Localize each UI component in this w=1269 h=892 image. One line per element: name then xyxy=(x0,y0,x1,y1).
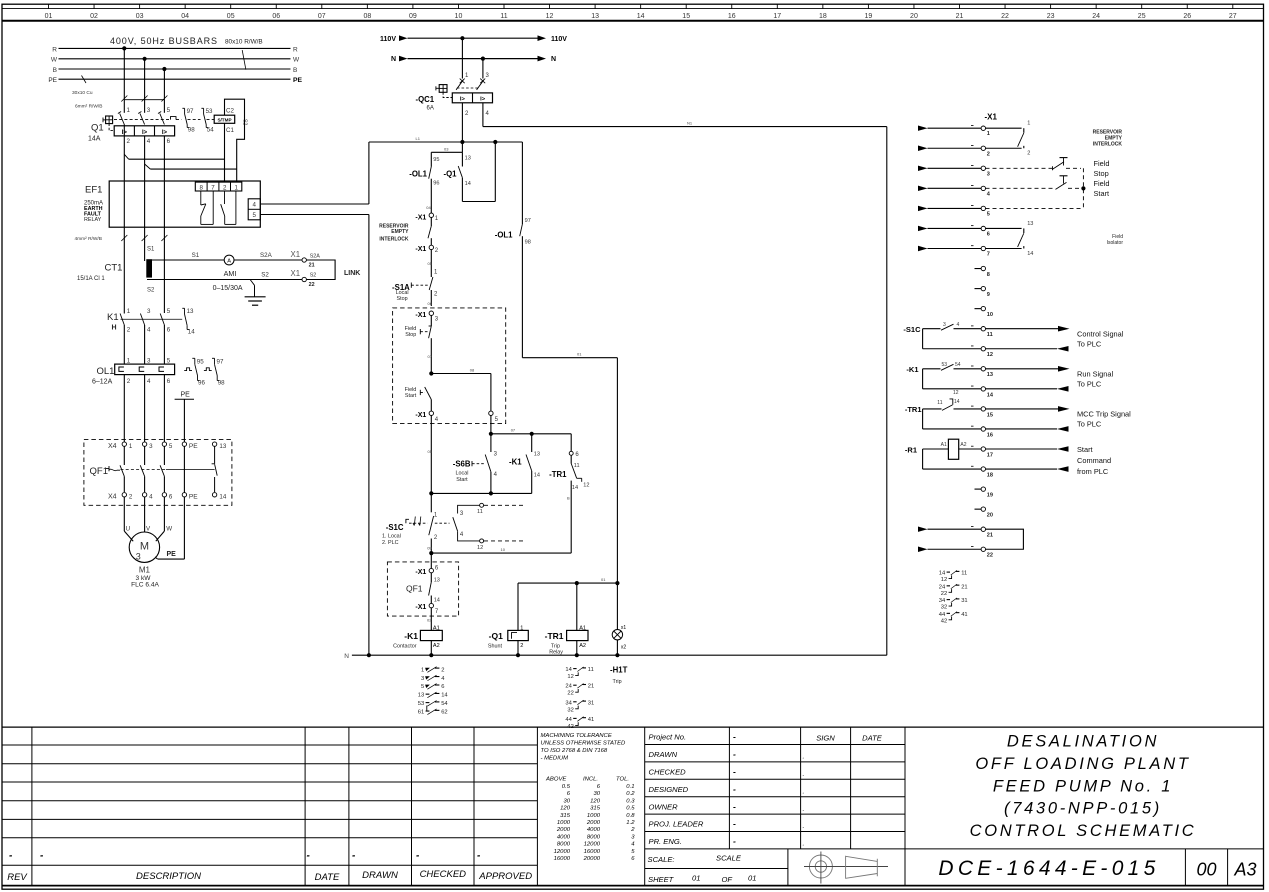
terminal X1:5 xyxy=(981,206,990,217)
svg-text:25: 25 xyxy=(1138,13,1146,20)
terminal -X1:5 xyxy=(489,411,499,423)
wire panel row 2 feed xyxy=(918,145,981,151)
node coil bus b xyxy=(615,581,619,585)
svg-text:30: 30 xyxy=(563,798,570,804)
node N 4 xyxy=(575,653,579,657)
svg-text:12000: 12000 xyxy=(584,842,601,848)
start command from PLC xyxy=(986,445,1112,476)
svg-text:07: 07 xyxy=(428,354,433,359)
selector aux -S1C 3-4 xyxy=(903,322,981,349)
svg-text:8: 8 xyxy=(987,272,990,278)
svg-text:13: 13 xyxy=(591,13,599,20)
svg-text:-X1: -X1 xyxy=(415,215,426,222)
svg-text:11: 11 xyxy=(500,13,507,20)
terminal X1:18 xyxy=(971,466,993,478)
svg-text:.: . xyxy=(803,788,805,795)
wire panel row 3 feed xyxy=(918,166,981,172)
svg-text:8: 8 xyxy=(199,184,203,191)
svg-text:Project No.: Project No. xyxy=(649,733,687,742)
overload relay OL1 xyxy=(92,357,175,385)
svg-text:13: 13 xyxy=(1027,221,1033,227)
svg-text:-X1: -X1 xyxy=(415,604,426,611)
svg-text:-K1: -K1 xyxy=(509,458,522,467)
svg-text:04: 04 xyxy=(181,13,189,20)
wire K1 to OL1 ph2 xyxy=(144,325,146,364)
svg-text:4: 4 xyxy=(252,202,256,209)
svg-text:8000: 8000 xyxy=(557,842,571,848)
svg-text:W: W xyxy=(166,526,172,533)
svg-text:DATE: DATE xyxy=(315,872,340,883)
svg-text:1: 1 xyxy=(421,667,424,673)
svg-text:14: 14 xyxy=(219,494,226,501)
busbar W xyxy=(51,57,300,64)
node L1 b xyxy=(493,140,497,144)
contactor K1 main contacts xyxy=(107,259,182,334)
svg-text:4mm² R/W/B: 4mm² R/W/B xyxy=(75,236,102,242)
svg-text:80x10 R/W/B: 80x10 R/W/B xyxy=(225,39,263,46)
svg-text:14: 14 xyxy=(954,399,960,405)
svg-text:11: 11 xyxy=(588,667,594,673)
svg-text:-OL1: -OL1 xyxy=(409,170,427,179)
svg-text:M1: M1 xyxy=(139,566,151,575)
svg-text:15/1A Cl 1: 15/1A Cl 1 xyxy=(77,276,105,282)
svg-text:A: A xyxy=(227,258,231,264)
svg-text:-S6B: -S6B xyxy=(453,459,471,468)
svg-text:21: 21 xyxy=(987,533,993,539)
svg-text:C2: C2 xyxy=(226,107,234,114)
svg-text:5: 5 xyxy=(167,107,171,114)
revision table xyxy=(2,727,537,886)
svg-text:MCC Trip Signal: MCC Trip Signal xyxy=(1077,410,1131,419)
node N 3 xyxy=(516,653,520,657)
svg-text:05: 05 xyxy=(428,449,433,454)
svg-text:Run Signal: Run Signal xyxy=(1077,370,1114,379)
drawing number row xyxy=(905,849,1264,886)
MCC trip signal to PLC xyxy=(986,406,1132,432)
svg-text:02: 02 xyxy=(427,618,432,623)
svg-text:5: 5 xyxy=(167,308,171,315)
svg-text:MACHINING TOLERANCE: MACHINING TOLERANCE xyxy=(541,733,612,739)
svg-text:3: 3 xyxy=(943,322,946,328)
svg-text:S2A: S2A xyxy=(310,254,321,260)
wire EF1-5 to neutral xyxy=(260,214,369,216)
svg-text:Trip: Trip xyxy=(551,643,560,649)
svg-text:-: - xyxy=(733,801,736,811)
svg-text:-: - xyxy=(733,784,736,794)
reservoir interlock contact xyxy=(379,217,431,245)
svg-text:-Q1: -Q1 xyxy=(489,631,503,641)
svg-text:14: 14 xyxy=(441,693,448,699)
svg-text:PE: PE xyxy=(189,494,198,501)
svg-text:02: 02 xyxy=(90,13,98,20)
node N 5 xyxy=(615,653,619,657)
svg-text:INTERLOCK: INTERLOCK xyxy=(379,237,409,243)
wire 10 return xyxy=(431,547,571,553)
Q1 test button xyxy=(103,116,114,131)
svg-text:-H1T: -H1T xyxy=(610,666,628,675)
bus 110V xyxy=(380,35,567,42)
wire N right drop xyxy=(886,127,888,656)
svg-text:12: 12 xyxy=(987,352,993,358)
svg-text:S2: S2 xyxy=(261,272,269,279)
terminal X1:2 xyxy=(981,146,990,157)
QF1 interlock dashed box xyxy=(387,562,458,616)
svg-text:To PLC: To PLC xyxy=(1077,420,1102,429)
overload aux -OL1 97-98 branch xyxy=(495,142,531,358)
svg-text:6: 6 xyxy=(167,138,171,145)
svg-text:2000: 2000 xyxy=(586,820,601,826)
svg-text:24: 24 xyxy=(565,684,572,690)
svg-text:07: 07 xyxy=(511,428,516,433)
terminal X1:19 xyxy=(975,487,994,499)
svg-text:07: 07 xyxy=(318,13,326,20)
svg-text:Isolator: Isolator xyxy=(1107,240,1124,246)
svg-text:14: 14 xyxy=(465,181,471,187)
svg-text:05: 05 xyxy=(227,13,235,20)
svg-text:X4: X4 xyxy=(108,494,117,501)
svg-text:-: - xyxy=(733,732,736,742)
EF1 terminals 4 5 xyxy=(248,199,260,220)
svg-text:I>: I> xyxy=(162,130,168,136)
svg-text:Local: Local xyxy=(396,290,409,296)
svg-text:11: 11 xyxy=(477,509,483,515)
svg-text:INTERLOCK: INTERLOCK xyxy=(1093,142,1123,148)
svg-text:01: 01 xyxy=(577,352,582,357)
svg-text:I>: I> xyxy=(460,96,466,102)
node coil bus a xyxy=(575,581,579,585)
terminal X1:6 xyxy=(981,226,990,237)
wire panel row 1 feed xyxy=(918,125,981,130)
svg-text:DRAWN: DRAWN xyxy=(649,750,678,759)
svg-text:OL1: OL1 xyxy=(97,366,115,377)
svg-text:from PLC: from PLC xyxy=(1077,467,1109,476)
terminal -X1:2 xyxy=(415,245,438,254)
busbar B xyxy=(53,67,298,74)
wire CT S2 xyxy=(147,269,316,292)
svg-text:10: 10 xyxy=(501,547,506,552)
svg-text:5: 5 xyxy=(169,443,173,450)
terminal X1:4 xyxy=(981,186,991,197)
svg-text:6mm² R/W/B: 6mm² R/W/B xyxy=(75,104,102,110)
svg-text:14: 14 xyxy=(534,473,540,479)
svg-text:A1: A1 xyxy=(941,442,947,448)
overload aux -OL1 95-96 xyxy=(409,152,439,213)
svg-text:PE: PE xyxy=(293,77,303,84)
svg-text:06: 06 xyxy=(428,301,433,306)
svg-text:120: 120 xyxy=(560,806,571,812)
svg-text:DESCRIPTION: DESCRIPTION xyxy=(136,871,201,882)
wire QC1-4 neutral return xyxy=(483,103,887,127)
svg-text:44: 44 xyxy=(939,612,946,618)
svg-text:-X1: -X1 xyxy=(415,246,426,253)
svg-text:13: 13 xyxy=(534,452,540,458)
svg-text:- MEDIUM: - MEDIUM xyxy=(541,756,569,762)
svg-text:LINK: LINK xyxy=(344,270,360,277)
svg-text:SIGN: SIGN xyxy=(816,734,835,743)
svg-text:To PLC: To PLC xyxy=(1077,339,1102,348)
Q1 linkage xyxy=(114,117,214,120)
isolator aux QF1 14-13 xyxy=(406,573,440,604)
svg-text:30x10 Cu: 30x10 Cu xyxy=(72,90,93,96)
wire OL1/Q1 feed xyxy=(431,142,462,152)
svg-text:18: 18 xyxy=(819,13,827,20)
svg-text:I>: I> xyxy=(480,96,486,102)
Q1 shunt-trip module S/TMP xyxy=(214,107,247,133)
terminal X1:21 xyxy=(981,527,993,539)
svg-text:-TR1: -TR1 xyxy=(905,405,922,414)
circuit breaker Q1 xyxy=(88,100,175,145)
svg-text:14A: 14A xyxy=(88,136,101,143)
motor M1 xyxy=(129,532,159,589)
terminal X1:3 xyxy=(981,166,990,177)
wire EF1-4 to control xyxy=(260,203,369,205)
svg-text:17: 17 xyxy=(773,13,781,20)
svg-text:X4: X4 xyxy=(108,443,117,450)
svg-text:11: 11 xyxy=(987,332,993,338)
svg-text:PE: PE xyxy=(181,392,191,399)
svg-text:14: 14 xyxy=(434,598,440,604)
svg-text:Start: Start xyxy=(1077,445,1093,454)
wire panel row 7 feed xyxy=(918,246,981,252)
terminal X1:17 xyxy=(971,446,993,458)
terminal X1:12 xyxy=(971,346,993,358)
wire panel row 6 feed xyxy=(918,226,981,232)
svg-text:PROJ. LEADER: PROJ. LEADER xyxy=(649,820,704,829)
svg-text:44: 44 xyxy=(565,717,572,723)
svg-text:1: 1 xyxy=(234,184,238,191)
svg-text:1: 1 xyxy=(127,308,131,315)
run signal to PLC xyxy=(986,366,1114,392)
svg-text:120: 120 xyxy=(590,798,601,804)
svg-text:04: 04 xyxy=(426,205,431,210)
R1 contact table xyxy=(939,570,968,624)
scale sheet block xyxy=(645,849,788,886)
svg-text:-: - xyxy=(733,749,736,759)
svg-text:30: 30 xyxy=(593,791,600,797)
terminal X1:22 xyxy=(302,277,306,281)
svg-text:INCL.: INCL. xyxy=(583,777,598,783)
svg-text:22: 22 xyxy=(1001,13,1009,20)
svg-text:17: 17 xyxy=(987,452,993,458)
svg-text:RELAY: RELAY xyxy=(84,217,102,223)
svg-text:3: 3 xyxy=(421,676,424,682)
wire L1 left drop xyxy=(368,142,370,204)
svg-text:2: 2 xyxy=(129,494,133,501)
wire phase1 through EF1 xyxy=(123,125,125,260)
wire to X1:5 xyxy=(431,367,491,411)
QF1 terminals X4 top xyxy=(108,442,227,450)
svg-text:-: - xyxy=(733,819,736,829)
svg-text:APPROVED: APPROVED xyxy=(478,871,532,882)
svg-text:2: 2 xyxy=(441,667,444,673)
wire 08 seal bar xyxy=(431,492,531,494)
svg-text:To PLC: To PLC xyxy=(1077,380,1102,389)
svg-text:EMPTY: EMPTY xyxy=(391,229,409,235)
node field stop out xyxy=(429,371,433,375)
svg-text:42: 42 xyxy=(941,618,947,624)
pushbutton -S6B local start xyxy=(453,434,498,494)
svg-text:31: 31 xyxy=(961,598,967,604)
ruler ticks xyxy=(49,4,1233,8)
PE tap xyxy=(175,392,194,443)
TR1 contact table xyxy=(565,667,594,730)
Q1 aux contact 97-98 xyxy=(182,108,195,134)
svg-text:Control Signal: Control Signal xyxy=(1077,329,1124,338)
svg-text:Field: Field xyxy=(1094,179,1110,188)
svg-text:7: 7 xyxy=(987,252,990,258)
EF1 terminals 8 7 2 1 xyxy=(195,182,242,191)
svg-text:11: 11 xyxy=(574,463,580,469)
node N 1 xyxy=(367,653,371,657)
svg-text:315: 315 xyxy=(590,806,601,812)
svg-text:03: 03 xyxy=(444,146,449,151)
svg-text:21: 21 xyxy=(956,13,964,20)
svg-text:11: 11 xyxy=(937,400,942,406)
svg-text:6: 6 xyxy=(167,378,171,385)
svg-text:-K1: -K1 xyxy=(404,631,418,641)
svg-text:EF1: EF1 xyxy=(85,185,102,196)
K1 contact table xyxy=(418,667,449,716)
node W tap xyxy=(143,57,147,61)
svg-text:3: 3 xyxy=(147,357,151,364)
svg-text:54: 54 xyxy=(955,362,961,368)
svg-text:.: . xyxy=(803,841,805,848)
svg-text:97: 97 xyxy=(187,108,194,115)
svg-text:34: 34 xyxy=(939,598,946,604)
svg-text:-Q1: -Q1 xyxy=(444,170,458,179)
terminal X1:9 xyxy=(975,286,990,298)
svg-text:41: 41 xyxy=(588,717,594,723)
svg-text:DCE-1644-E-015: DCE-1644-E-015 xyxy=(938,857,1159,880)
QF1 terminals X4 bottom xyxy=(108,493,227,501)
svg-text:11: 11 xyxy=(961,571,967,577)
svg-text:1. Local: 1. Local xyxy=(382,534,401,540)
PE size mark xyxy=(72,76,93,97)
svg-text:4000: 4000 xyxy=(557,834,571,840)
field start contact xyxy=(405,387,432,411)
svg-text:110V: 110V xyxy=(551,36,567,43)
wire chain b xyxy=(428,416,433,494)
svg-text:Contactor: Contactor xyxy=(393,643,417,649)
svg-text:N: N xyxy=(551,56,556,63)
svg-text:-K1: -K1 xyxy=(906,365,918,374)
svg-text:14: 14 xyxy=(188,329,195,336)
svg-text:Relay: Relay xyxy=(549,649,563,655)
wire L1 xyxy=(369,136,523,142)
terminal X1:13 xyxy=(971,366,993,378)
svg-text:12: 12 xyxy=(953,390,959,396)
svg-text:S2: S2 xyxy=(310,273,317,279)
svg-text:OF: OF xyxy=(722,875,733,884)
svg-text:14: 14 xyxy=(572,485,578,491)
svg-text:14: 14 xyxy=(565,667,572,673)
svg-text:PR. ENG.: PR. ENG. xyxy=(649,837,682,846)
svg-text:-TR1: -TR1 xyxy=(549,470,567,479)
svg-text:12: 12 xyxy=(567,674,573,680)
svg-text:QF1: QF1 xyxy=(406,584,423,594)
svg-text:B: B xyxy=(567,496,570,501)
svg-text:13: 13 xyxy=(219,443,226,450)
svg-text:x1: x1 xyxy=(621,625,627,631)
wire tap phase1 to C1 xyxy=(124,154,224,159)
svg-text:4000: 4000 xyxy=(587,827,601,833)
wire C2 loop xyxy=(225,99,245,182)
field wiring dashed xyxy=(986,168,1086,208)
svg-text:6: 6 xyxy=(441,684,444,690)
node B tap xyxy=(162,67,166,71)
svg-text:14: 14 xyxy=(987,392,994,398)
svg-text:26: 26 xyxy=(1183,13,1191,20)
node N tap xyxy=(481,57,485,61)
svg-text:13: 13 xyxy=(465,156,471,162)
terminal X1:16 xyxy=(971,426,993,438)
svg-text:A2: A2 xyxy=(433,643,440,649)
svg-text:23: 23 xyxy=(1047,13,1055,20)
svg-text:54: 54 xyxy=(207,127,214,134)
svg-text:22: 22 xyxy=(987,553,993,559)
svg-text:05: 05 xyxy=(428,261,433,266)
svg-text:41: 41 xyxy=(961,612,967,618)
wire motor PE xyxy=(156,446,185,559)
svg-text:W: W xyxy=(293,57,300,64)
svg-text:95: 95 xyxy=(197,359,204,366)
svg-text:Start: Start xyxy=(405,393,417,399)
wire motor V xyxy=(145,497,151,533)
trip lamp -H1T xyxy=(610,583,628,685)
svg-text:CHECKED: CHECKED xyxy=(649,768,687,777)
svg-text:4: 4 xyxy=(957,322,960,328)
Q1 aux contact 53-54 xyxy=(201,108,214,134)
reservoir interlock contact right xyxy=(986,121,1123,157)
control signal to PLC xyxy=(986,326,1124,352)
svg-text:14: 14 xyxy=(939,571,946,577)
selector switch -S1C xyxy=(382,493,450,553)
svg-text:5: 5 xyxy=(167,357,171,364)
svg-text:98: 98 xyxy=(188,127,195,134)
busbar R xyxy=(52,46,298,53)
svg-text:S2A: S2A xyxy=(260,252,273,259)
wire C1 drop xyxy=(224,123,226,182)
svg-text:06: 06 xyxy=(272,13,280,20)
field start pushbutton right xyxy=(986,176,1110,198)
svg-text:5: 5 xyxy=(252,212,256,219)
node R tap xyxy=(122,46,126,50)
svg-text:-: - xyxy=(733,836,736,846)
svg-text:-X1: -X1 xyxy=(415,312,426,319)
K1 aux contact 13-14 xyxy=(182,308,195,336)
svg-text:-X1: -X1 xyxy=(415,412,426,419)
tolerance table xyxy=(541,733,636,862)
wire tap phase2 to C2 xyxy=(145,164,237,169)
busbar title xyxy=(110,36,263,46)
terminal X1:14 xyxy=(971,386,994,398)
svg-text:54: 54 xyxy=(441,701,448,707)
wire phase2 through EF1 xyxy=(144,136,146,261)
svg-text:S2: S2 xyxy=(147,288,155,294)
terminal X1:1 xyxy=(981,126,990,137)
current transformer CT1 xyxy=(77,247,155,294)
wire panel row 4 feed xyxy=(918,186,981,192)
svg-text:-: - xyxy=(733,767,736,777)
relay coil -R1 xyxy=(905,439,981,469)
wire CT S1 xyxy=(147,252,224,260)
right panel header -X1 xyxy=(985,113,998,122)
svg-text:Q1: Q1 xyxy=(91,123,104,134)
svg-text:20: 20 xyxy=(987,513,993,519)
wire phase R drop xyxy=(123,48,125,99)
svg-text:10: 10 xyxy=(987,312,993,318)
svg-text:UNLESS OTHERWISE STATED: UNLESS OTHERWISE STATED xyxy=(541,741,627,747)
